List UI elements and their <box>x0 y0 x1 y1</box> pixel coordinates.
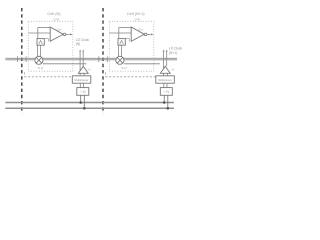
mixer M2 <box>116 56 124 64</box>
clock buffer B2 <box>160 66 170 73</box>
svg-text:Gm: Gm <box>138 27 143 31</box>
LO feed wire <box>43 63 87 65</box>
svg-text:f LO: f LO <box>121 66 127 70</box>
clock bus line 2 <box>5 107 174 109</box>
wire buffer to multiplexer <box>167 73 169 76</box>
op-amp A2 <box>131 27 144 41</box>
wire divider to clock bus 2 with junction dot <box>83 95 85 108</box>
svg-text:Cell (N+1): Cell (N+1) <box>127 11 145 16</box>
wires multiplexer to divider <box>79 83 81 87</box>
vertical wire to sampler <box>37 28 39 39</box>
sampler top-right stub <box>125 38 129 40</box>
svg-text:x4: x4 <box>88 67 91 71</box>
svg-text:C FB: C FB <box>53 18 59 22</box>
svg-text:f LO: f LO <box>38 66 44 70</box>
svg-text:Cell (N): Cell (N) <box>47 11 61 16</box>
select dashed line <box>25 76 73 78</box>
svg-text:÷ N: ÷ N <box>80 90 86 94</box>
svg-text:C FB: C FB <box>134 18 140 22</box>
upper input wire <box>119 27 131 29</box>
boundary dashed line left <box>21 8 23 114</box>
op-amp output bubble <box>144 33 147 36</box>
sampler glyph <box>120 41 124 44</box>
sampler box S2 <box>118 39 125 46</box>
wires sampler to mixer <box>118 45 120 56</box>
mixer M1 <box>35 56 43 64</box>
svg-text:÷ N: ÷ N <box>164 90 170 94</box>
sampler box S1 <box>37 39 44 46</box>
multiplexer box MUX2 <box>156 76 175 83</box>
cell dashed box <box>28 21 73 71</box>
wire buffer to multiplexer <box>83 73 85 76</box>
multiplexer box MUX1 <box>72 76 91 83</box>
op-amp output bubble <box>63 33 66 36</box>
svg-text:(N+1): (N+1) <box>169 51 177 55</box>
break ticks on signal pair at mid boundary <box>98 56 100 62</box>
clock bus line 1 <box>5 102 174 104</box>
wire divider to clock bus 1 with junction dot <box>163 95 165 102</box>
svg-text:Multiplexer: Multiplexer <box>158 78 172 82</box>
LO clock wires with arrows <box>79 51 81 76</box>
wire divider to clock bus 1 with junction dot <box>80 95 82 102</box>
upper input wire <box>38 27 50 29</box>
op-amp A1 <box>50 27 63 41</box>
wire divider to clock bus 2 with junction dot <box>167 95 169 108</box>
LO feed wire <box>124 63 160 65</box>
wires sampler to mixer <box>37 45 39 56</box>
boundary dashed line mid <box>102 8 104 114</box>
wires multiplexer to divider <box>163 83 165 87</box>
clock buffer B1 <box>78 66 88 73</box>
svg-text:Gm: Gm <box>57 27 62 31</box>
op-amp output wire with arrow <box>147 33 152 35</box>
break ticks on signal pair at left boundary <box>17 56 19 62</box>
cell dashed box <box>109 21 154 71</box>
select dashed line <box>106 76 156 78</box>
signal line pair <box>5 57 177 59</box>
sampler glyph <box>39 41 43 44</box>
input wire from previous cell <box>28 32 50 34</box>
LO clock wires with arrows <box>163 51 165 76</box>
divider box D2 <box>160 88 172 96</box>
divider box D1 <box>77 88 89 96</box>
input wire from previous cell <box>109 32 131 34</box>
vertical wire to sampler <box>118 28 120 39</box>
svg-text:Multiplexer: Multiplexer <box>75 78 89 82</box>
sampler top-right stub <box>44 38 48 40</box>
svg-text:x4: x4 <box>171 67 174 71</box>
svg-text:(N): (N) <box>76 42 80 46</box>
op-amp output wire with arrow <box>66 33 71 35</box>
